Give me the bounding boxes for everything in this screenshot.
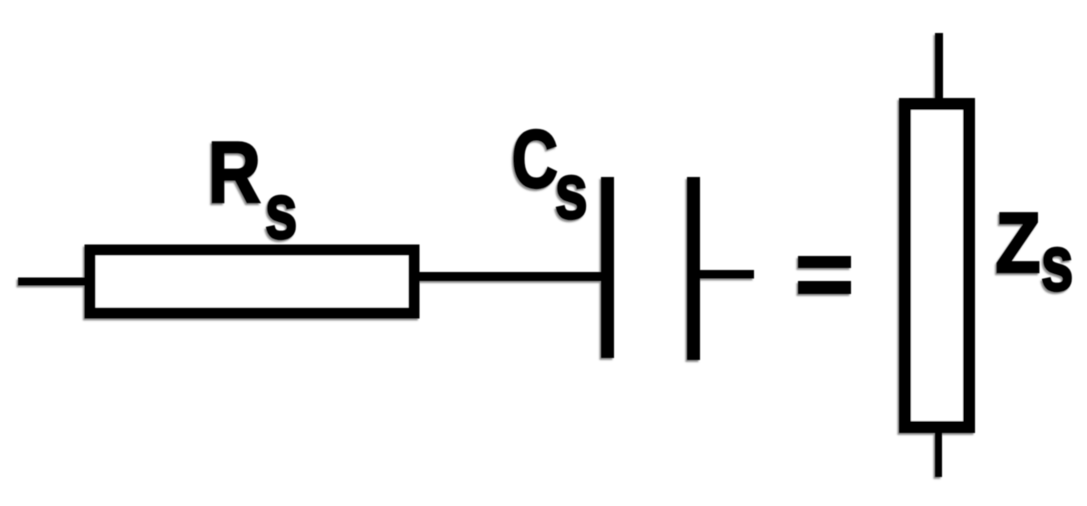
wire: bottom terminal of impedance Z_s [935,431,942,477]
svg-text:s: s [555,147,588,235]
equals sign top bar [798,256,851,268]
svg-text:s: s [265,166,298,255]
svg-text:C: C [512,112,558,205]
impedance Z_s box [905,104,969,427]
wire: left terminal into resistor [18,278,86,286]
equals sign bottom bar [798,281,851,294]
svg-text:s: s [1041,218,1074,307]
svg-text:Z: Z [995,195,1040,290]
svg-text:R: R [208,124,261,220]
resistor R_s body [90,250,414,313]
wire: right terminal out of capacitor plate 2 [700,270,754,279]
wire: resistor to capacitor plate 1 [415,272,602,281]
capacitor C_s plate 2 [687,177,700,360]
wire: top terminal of impedance Z_s [935,33,943,100]
capacitor C_s plate 1 [601,177,614,358]
